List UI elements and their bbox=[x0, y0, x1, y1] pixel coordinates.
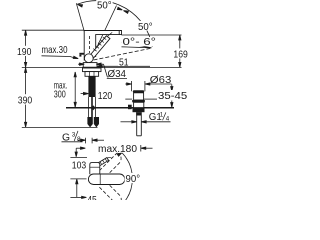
wire: basin line (heavy) bbox=[66, 107, 174, 109]
svg-text:90°: 90° bbox=[126, 174, 141, 185]
svg-text:50°: 50° bbox=[138, 22, 153, 33]
svg-text:3: 3 bbox=[72, 132, 76, 139]
waste tube bbox=[136, 112, 138, 136]
svg-text:169: 169 bbox=[173, 50, 188, 61]
svg-text:4: 4 bbox=[166, 115, 170, 122]
supply hoses bbox=[89, 97, 96, 117]
waste plug cap (black) bbox=[133, 90, 144, 93]
bottom view: spout pill bbox=[88, 174, 124, 185]
wire: hose-end line (390 bottom) bbox=[22, 126, 98, 128]
svg-text:51: 51 bbox=[119, 57, 129, 68]
svg-text:Ø63: Ø63 bbox=[150, 75, 172, 86]
svg-text:120: 120 bbox=[98, 91, 113, 102]
svg-text:G: G bbox=[62, 132, 70, 143]
lever axis line L3 bbox=[93, 6, 117, 57]
dimension 35-45 bbox=[171, 84, 173, 107]
G3/8 fraction slash bbox=[74, 131, 78, 141]
spout-axis extension line bbox=[70, 178, 86, 180]
waste nut (black) bbox=[133, 108, 145, 112]
waste upper body bbox=[134, 102, 144, 107]
washer under deck bbox=[83, 68, 102, 72]
dimension 103 bbox=[76, 179, 78, 197]
label 190 bbox=[16, 46, 34, 58]
wire: spout-underside extension to 169 bbox=[122, 34, 182, 36]
hex nut bbox=[85, 72, 99, 77]
dimension 120 arrow bbox=[81, 93, 85, 95]
label 35-45 bbox=[157, 90, 188, 102]
waste o-ring band (black) bbox=[132, 100, 145, 102]
svg-text:8: 8 bbox=[77, 136, 81, 143]
svg-text:max.30: max.30 bbox=[42, 45, 68, 56]
svg-text:300: 300 bbox=[54, 90, 66, 101]
junction diamond bbox=[90, 105, 96, 110]
svg-text:35-45: 35-45 bbox=[158, 91, 187, 102]
dashed tilt axis bbox=[94, 48, 151, 60]
aerator nub bbox=[79, 53, 84, 57]
wire: spout-top extension line bbox=[22, 29, 84, 31]
label 390 bbox=[17, 94, 35, 106]
bottom view: body bbox=[90, 163, 100, 175]
dimension max.180 bbox=[75, 145, 152, 157]
svg-text:0°- 6°: 0°- 6° bbox=[123, 37, 157, 48]
wire: deck line bbox=[22, 66, 182, 68]
faucet base collar bbox=[83, 63, 97, 68]
lever extreme-left line L1 bbox=[76, 3, 91, 57]
50-degree arc bbox=[77, 1, 152, 47]
dashed body axis bbox=[89, 36, 91, 53]
lever handle bbox=[90, 32, 112, 58]
label 169 bbox=[172, 48, 189, 60]
label max.180 bbox=[97, 144, 138, 155]
threaded shank (black) bbox=[88, 76, 95, 97]
label 0-6 deg bbox=[122, 37, 158, 48]
wire: basin top segments bbox=[125, 98, 132, 100]
svg-text:max.180: max.180 bbox=[98, 144, 137, 155]
dimension G1 1/4 bbox=[121, 121, 171, 123]
pull-rod ticks bbox=[78, 138, 104, 144]
bottom view: 90-degree arc bbox=[122, 153, 133, 205]
dimension O63 bbox=[125, 81, 171, 91]
dimension 034 arrows bbox=[78, 63, 127, 79]
svg-text:Ø34: Ø34 bbox=[108, 69, 127, 80]
label 90 deg bbox=[125, 173, 141, 185]
svg-text:103: 103 bbox=[72, 161, 87, 172]
svg-text:390: 390 bbox=[18, 96, 33, 107]
faucet spout bar bbox=[84, 31, 121, 61]
G1 1/4 fraction slash bbox=[163, 112, 166, 120]
bottom view: lever bbox=[97, 157, 111, 166]
dimension max.30 leader bbox=[42, 56, 75, 58]
svg-text:1: 1 bbox=[160, 111, 164, 118]
dimension 190 bbox=[24, 30, 26, 67]
svg-text:45: 45 bbox=[87, 195, 97, 200]
bottom-view top extension line bbox=[70, 157, 87, 159]
0-6 degree fan bbox=[122, 42, 152, 48]
svg-text:190: 190 bbox=[17, 47, 32, 58]
dimension G3/8 underline bbox=[62, 141, 83, 143]
label 50 deg right bbox=[137, 21, 153, 33]
dimension 51 line bbox=[97, 65, 150, 67]
bottom view: dashed swivel up bbox=[99, 153, 121, 177]
dimension 45 row bbox=[70, 196, 86, 198]
label 50 deg left bbox=[96, 0, 112, 12]
svg-text:50°: 50° bbox=[97, 1, 112, 12]
dimension 390 bbox=[24, 67, 26, 127]
label 51 bbox=[118, 57, 130, 68]
waste side knob (black) bbox=[128, 105, 132, 110]
hose connectors (black) bbox=[87, 117, 92, 127]
dimension max.300 bbox=[74, 72, 76, 107]
waste neck bbox=[134, 93, 144, 100]
bottom view: dashed swivel down bbox=[99, 181, 121, 205]
waste tube top (black) bbox=[136, 112, 141, 115]
dimension 169 bbox=[179, 35, 181, 67]
ball joint bbox=[84, 54, 93, 63]
